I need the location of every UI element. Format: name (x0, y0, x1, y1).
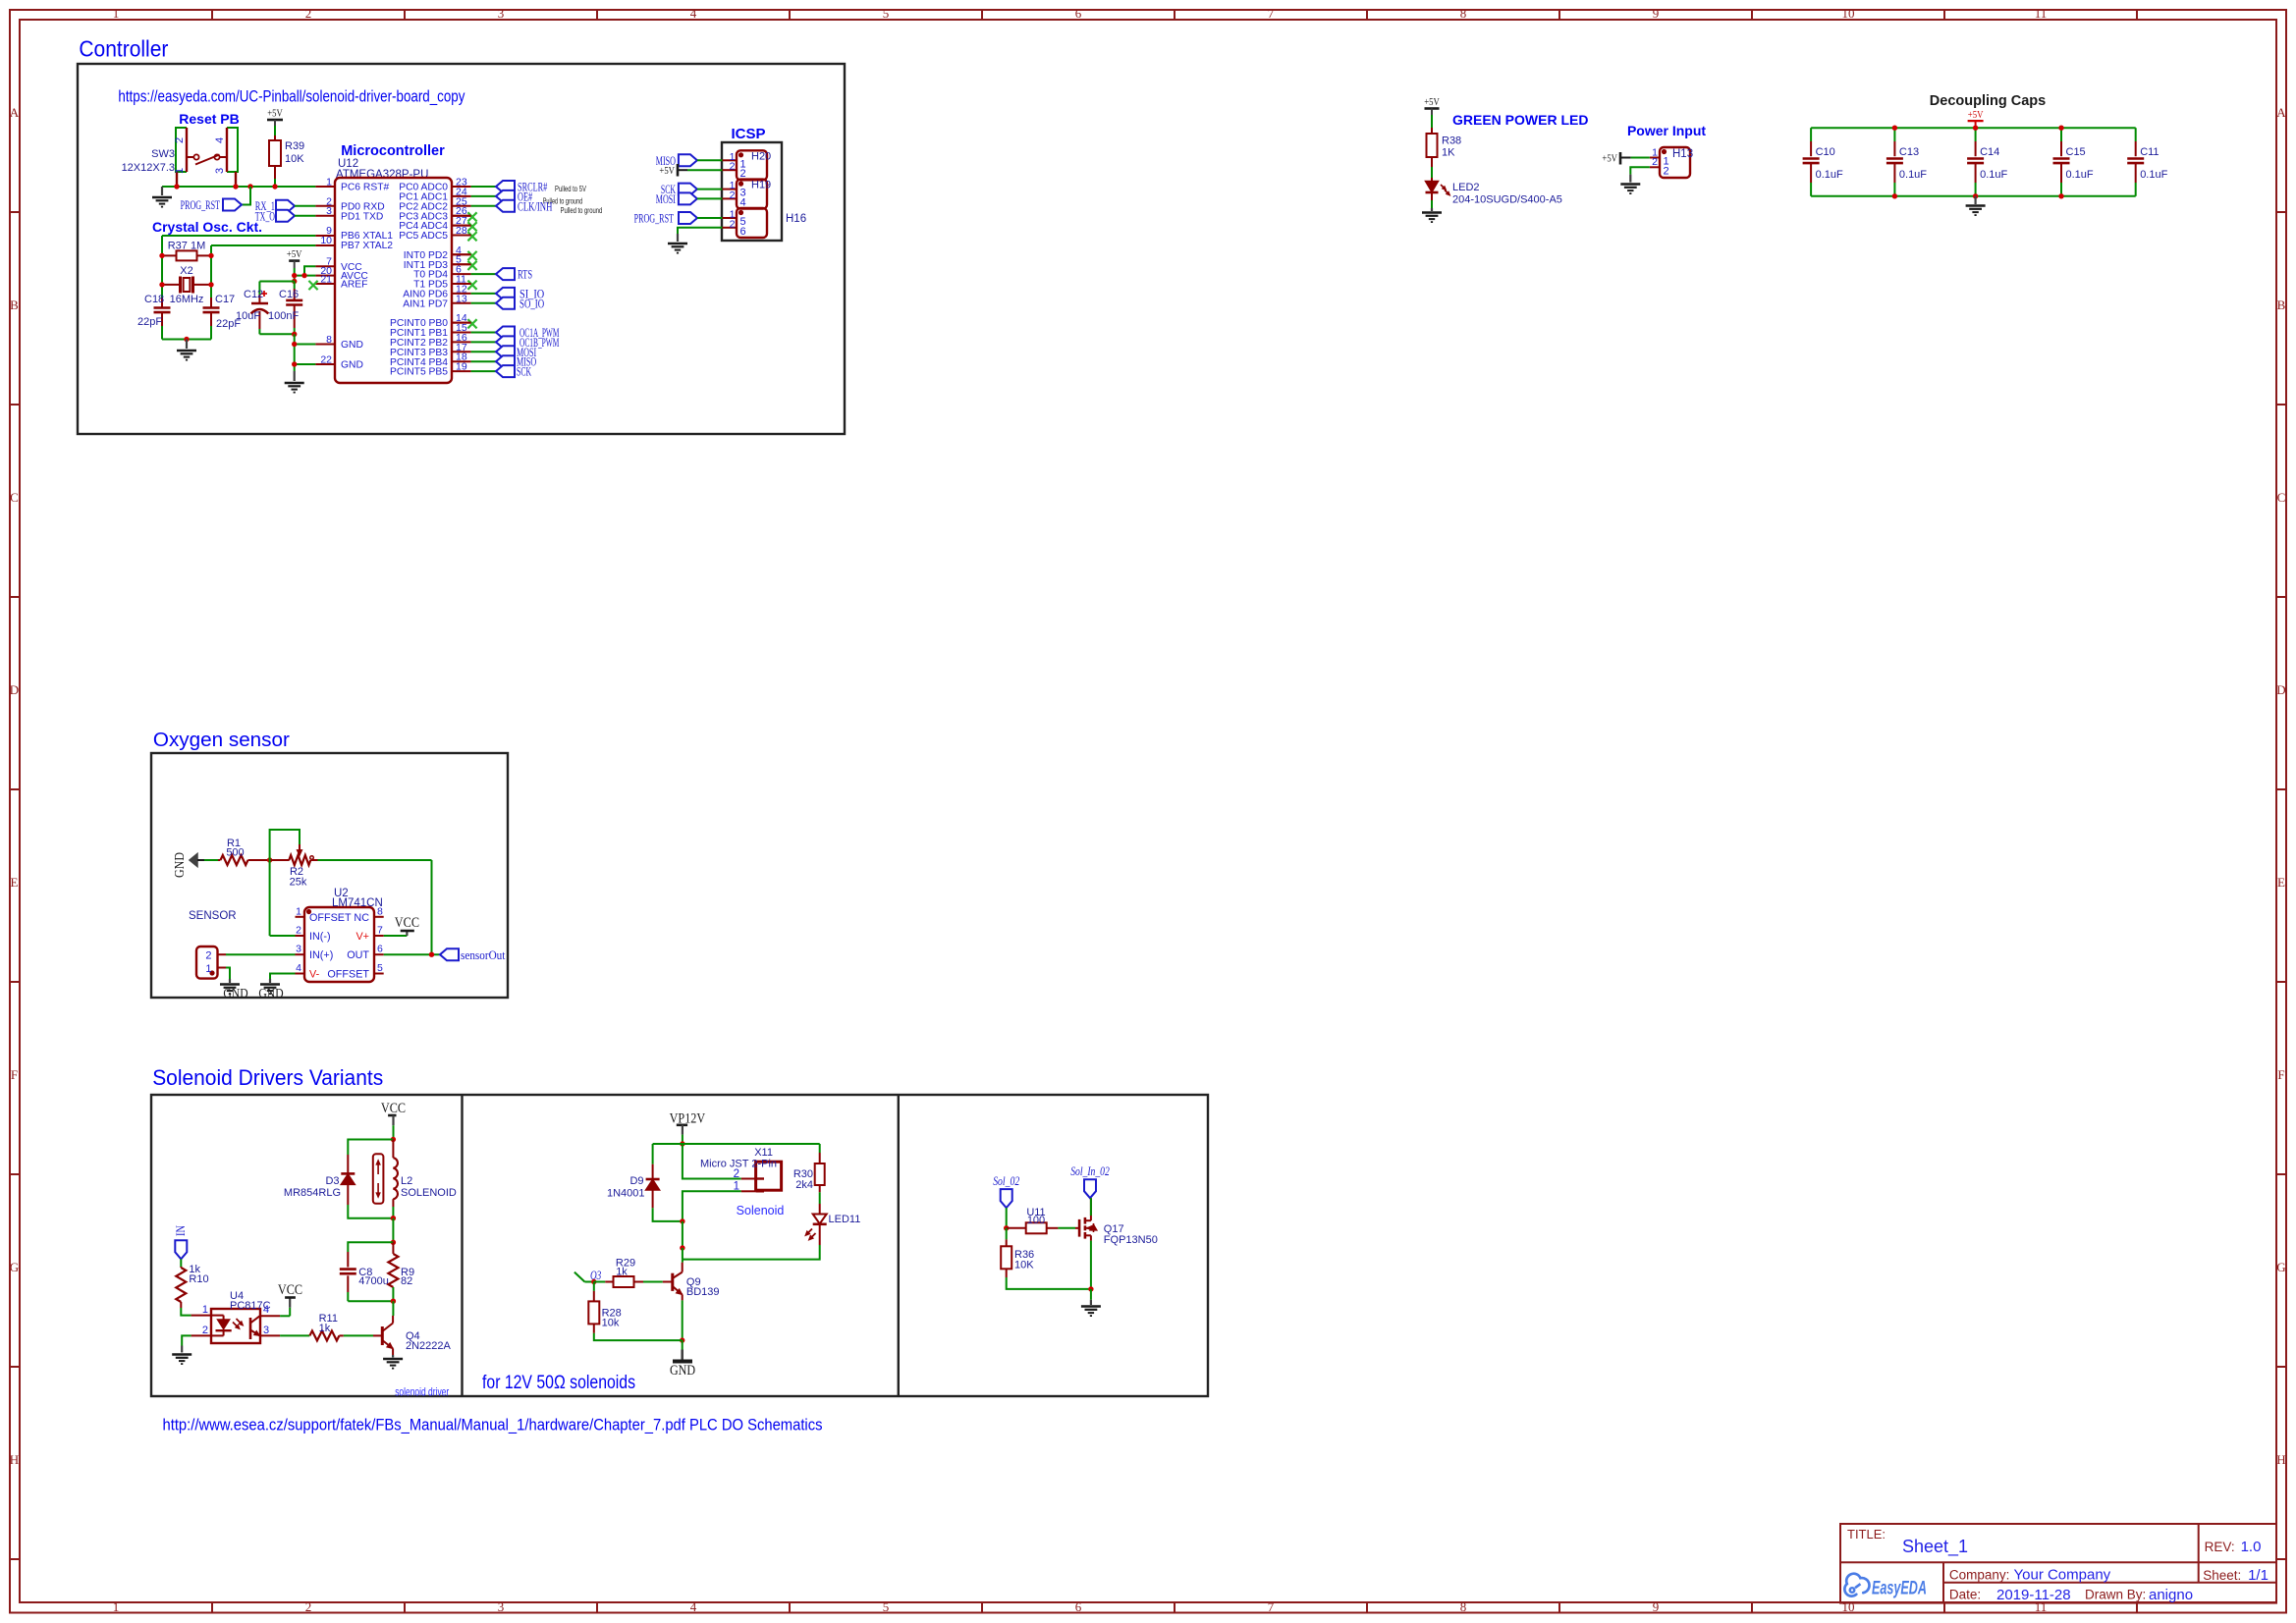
junction RST at PROG_RST tap (247, 184, 252, 189)
svg-text:Your Company: Your Company (2014, 1567, 2111, 1584)
netflag OC1A_PWM (496, 327, 515, 339)
svg-text:2: 2 (174, 137, 186, 143)
svg-text:PCINT5 PB5: PCINT5 PB5 (390, 367, 448, 378)
junction decoupling rail dots (1892, 126, 1897, 131)
wire SCK net (471, 370, 496, 372)
netflag RTS (496, 268, 515, 280)
pin 7 V+ of U2 (355, 925, 383, 944)
wire VCC stem panel1 (393, 1125, 395, 1139)
svg-text:C: C (2277, 490, 2286, 505)
svg-text:D9: D9 (629, 1175, 643, 1187)
svg-text:for 12V 50Ω solenoids: for 12V 50Ω solenoids (482, 1373, 635, 1393)
svg-text:X11: X11 (754, 1147, 773, 1159)
connector SENSOR P1 (196, 947, 218, 979)
svg-text:OUT: OUT (347, 949, 369, 961)
netflag SCK icsp (679, 184, 697, 195)
wire SCK to H19 (697, 189, 723, 190)
wire GND pin22 (295, 363, 316, 365)
svg-text:22: 22 (320, 354, 332, 366)
wire X11 pin1 link (683, 1191, 741, 1221)
netflag SI_IO (496, 288, 515, 299)
capacitor C8 (347, 1252, 349, 1268)
svg-text:V+: V+ (355, 931, 369, 943)
svg-text:OFFSET: OFFSET (327, 969, 369, 981)
inductor L2 SOLENOID (392, 1140, 394, 1159)
svg-text:1: 1 (174, 168, 186, 174)
svg-text:SCK: SCK (517, 365, 531, 379)
wire source down (1090, 1241, 1092, 1289)
pin 9 PB6 XTAL1 of U12 (326, 225, 393, 242)
svg-text:7: 7 (1268, 6, 1275, 21)
svg-text:2: 2 (1652, 156, 1658, 168)
wire X11 node to collector node (682, 1221, 683, 1248)
wire OE# net (471, 195, 496, 197)
plus mark C12 (261, 293, 267, 295)
svg-text:Micro JST 2-Pin: Micro JST 2-Pin (700, 1159, 777, 1170)
pin 19 PCINT5 PB5 of U12 (390, 361, 467, 378)
wire +5V stem (294, 268, 296, 282)
svg-text:LED11: LED11 (829, 1214, 861, 1225)
svg-text:8: 8 (1460, 6, 1467, 21)
pin 12 AIN0 PD6 of U12 (403, 283, 467, 299)
power +5V red netflag (1968, 120, 1984, 122)
wire D3 bottom link (348, 1205, 393, 1218)
svg-text:2: 2 (730, 218, 736, 230)
svg-text:3: 3 (263, 1325, 269, 1336)
svg-text:VCC: VCC (395, 915, 419, 931)
svg-text:BD139: BD139 (686, 1286, 720, 1298)
svg-text:C12: C12 (244, 289, 263, 300)
pin 6 T0 PD4 of U12 (413, 264, 462, 281)
svg-text:2: 2 (1664, 165, 1669, 177)
header H19 (723, 180, 772, 209)
netflag MISO pin18 (496, 355, 515, 367)
pin 27 PC4 ADC4 of U12 (399, 215, 467, 232)
wire RTS net (471, 273, 496, 275)
wire feedback top (318, 859, 432, 861)
pin 6 OUT of U2 (347, 944, 383, 962)
svg-text:2N2222A: 2N2222A (406, 1340, 452, 1352)
junction GND pin8 (292, 342, 297, 347)
svg-text:V-: V- (309, 969, 320, 981)
junction VCC branch (301, 273, 306, 278)
ground LED2 (1431, 208, 1433, 211)
wire D9 bottom link (653, 1208, 683, 1221)
junction GND pin22 (292, 361, 297, 366)
svg-text:3: 3 (214, 168, 226, 174)
svg-text:TITLE:: TITLE: (1847, 1527, 1886, 1542)
svg-text:10: 10 (1842, 1599, 1855, 1614)
wire collector Q9 (682, 1260, 683, 1263)
svg-text:SO_IO: SO_IO (519, 297, 544, 310)
svg-text:22pF: 22pF (137, 316, 162, 328)
svg-text:1: 1 (202, 1304, 208, 1316)
svg-text:Company:: Company: (1949, 1568, 2010, 1583)
wire R11 to Q4 base (344, 1334, 373, 1336)
svg-text:+5V: +5V (267, 108, 283, 120)
svg-text:GND: GND (258, 986, 283, 1001)
solenoid panel divider 2 (898, 1095, 900, 1396)
wire PROG_RST to H16 (697, 217, 723, 219)
wire Q9 emitter down (682, 1300, 683, 1340)
svg-text:+5V: +5V (1602, 153, 1617, 165)
svg-text:Sheet:: Sheet: (2203, 1568, 2241, 1583)
wire sensor pin1 to gnd (226, 968, 230, 980)
wire opto pin3 to R11 (280, 1334, 309, 1336)
svg-text:PB7 XTAL2: PB7 XTAL2 (341, 241, 393, 251)
svg-text:4700u: 4700u (358, 1275, 389, 1287)
netflag SRCLR# (496, 181, 515, 192)
wire H16 pin2 to ground (678, 228, 723, 234)
pin 7 VCC of U12 (326, 256, 362, 273)
capacitor C17 (210, 298, 212, 308)
svg-text:500: 500 (226, 847, 244, 859)
resistor R1 zigzag (218, 859, 220, 861)
svg-text:anigno: anigno (2149, 1587, 2193, 1603)
svg-text:0.1uF: 0.1uF (2140, 169, 2167, 181)
svg-text:C18: C18 (144, 294, 164, 305)
svg-text:1: 1 (734, 1181, 739, 1193)
wire decoupling top rail (1811, 127, 2136, 129)
svg-text:C17: C17 (215, 294, 235, 305)
svg-text:E: E (2277, 875, 2285, 890)
svg-text:PROG_RST: PROG_RST (181, 198, 221, 212)
svg-text:MOSI: MOSI (656, 192, 676, 206)
svg-text:8: 8 (326, 334, 332, 346)
wire C8 bottom link (348, 1300, 393, 1302)
wire V- to gnd (270, 974, 296, 980)
svg-text:H16: H16 (786, 213, 806, 225)
resistor R37 (162, 254, 177, 256)
netflag GND rotated for R1 (190, 854, 197, 867)
svg-text:IN: IN (174, 1225, 188, 1236)
svg-text:0.1uF: 0.1uF (1980, 169, 2007, 181)
junction +5V AVCC (292, 273, 297, 278)
svg-text:D3: D3 (325, 1175, 339, 1187)
title block divider logo cell (1942, 1562, 1944, 1602)
svg-text:1: 1 (205, 963, 211, 975)
pin 22 GND of U12 (320, 354, 363, 371)
svg-text:10k: 10k (602, 1318, 620, 1329)
wire SO_IO net (471, 302, 496, 304)
svg-text:Sheet_1: Sheet_1 (1902, 1537, 1968, 1557)
svg-text:4: 4 (296, 962, 301, 974)
svg-text:SOLENOID: SOLENOID (401, 1187, 457, 1199)
svg-text:+5V: +5V (287, 248, 302, 260)
solenoid drivers section box (151, 1095, 1208, 1396)
svg-text:H: H (10, 1452, 19, 1467)
svg-text:Solenoid Drivers Variants: Solenoid Drivers Variants (152, 1065, 383, 1090)
wire main rail panel2 (653, 1143, 820, 1145)
svg-text:Pulled to ground: Pulled to ground (561, 206, 603, 215)
ic U12 ATMEGA328P-PU body (335, 178, 452, 383)
ground opto (181, 1346, 183, 1353)
pin stub GND22 (315, 363, 335, 365)
pushbutton SW3 (176, 128, 238, 187)
svg-text:PD1 TXD: PD1 TXD (341, 211, 383, 222)
svg-text:+5V: +5V (659, 165, 675, 177)
netflag OC1B_PWM (496, 336, 515, 348)
junction RST at R39 (272, 184, 277, 189)
svg-text:VCC: VCC (381, 1101, 406, 1116)
power VCC opamp (406, 931, 408, 936)
svg-text:R10: R10 (189, 1273, 208, 1285)
netflag SO_IO (496, 298, 515, 309)
svg-text:0.1uF: 0.1uF (1899, 169, 1927, 181)
svg-text:7: 7 (1268, 1599, 1275, 1614)
EasyEDA logo (1844, 1574, 1927, 1599)
svg-text:4: 4 (263, 1304, 269, 1316)
svg-text:X2: X2 (180, 265, 192, 277)
pin stub GND8 (315, 344, 335, 346)
svg-text:F: F (11, 1067, 18, 1082)
svg-text:5: 5 (883, 6, 890, 21)
pin 17 PCINT3 PB3 of U12 (390, 342, 467, 358)
junction X11 node (680, 1218, 684, 1223)
capacitor C15 (2053, 128, 2094, 196)
power +5V above R38 (1425, 107, 1440, 110)
wire L2 to C8 node (392, 1218, 394, 1243)
svg-text:Drawn By:: Drawn By: (2085, 1588, 2146, 1602)
svg-text:Microcontroller: Microcontroller (341, 143, 445, 159)
svg-text:4: 4 (214, 137, 226, 143)
svg-text:Sol_02: Sol_02 (993, 1174, 1019, 1188)
svg-text:VP12V: VP12V (670, 1110, 706, 1126)
junction crystal gnd (184, 337, 189, 342)
wire feedback right column (431, 860, 433, 954)
header H20 (723, 150, 772, 180)
netflag sensorOut (440, 948, 459, 960)
svg-text:4: 4 (690, 6, 697, 21)
svg-text:H13: H13 (1672, 148, 1693, 160)
svg-text:2: 2 (202, 1325, 208, 1336)
pin 5 INT1 PD3 of U12 (404, 254, 462, 271)
svg-text:7: 7 (377, 925, 383, 937)
wire RST net horizontal (162, 186, 315, 188)
ground H13 (1629, 175, 1631, 183)
svg-text:H20: H20 (751, 150, 771, 162)
wire opto pin2 to gnd (182, 1335, 191, 1345)
svg-text:H: H (2276, 1452, 2285, 1467)
pin stub RST to U12 pin1 (315, 186, 335, 188)
wire R28 to emitter node (594, 1333, 683, 1340)
svg-text:2: 2 (730, 161, 736, 173)
junction Q3 node (591, 1279, 596, 1284)
resistor R36 (1006, 1239, 1008, 1246)
power +5V above AVCC (289, 259, 300, 262)
svg-text:C10: C10 (1816, 146, 1835, 158)
no-connect X on AREF (308, 281, 317, 290)
svg-text:MR854RLG: MR854RLG (284, 1187, 341, 1199)
svg-text:GND: GND (341, 360, 363, 371)
netflag Sol_02 (1001, 1189, 1012, 1208)
svg-text:16MHz: 16MHz (170, 294, 204, 305)
svg-text:+5V: +5V (1424, 96, 1440, 108)
svg-text:SENSOR: SENSOR (189, 910, 237, 922)
junction Sol_02 node (1004, 1225, 1009, 1230)
svg-text:25k: 25k (290, 877, 307, 889)
svg-text:R39: R39 (285, 140, 304, 152)
power +5V above R39 (267, 119, 283, 122)
pin stub VCC (315, 265, 335, 267)
wire collector to node (392, 1301, 394, 1316)
svg-text:B: B (10, 298, 19, 312)
svg-text:Date:: Date: (1949, 1588, 1981, 1602)
svg-text:RTS: RTS (518, 268, 532, 282)
svg-text:2: 2 (740, 168, 746, 180)
pin 8 NC of U2 (354, 905, 383, 924)
pin 4 V- of U2 (296, 962, 320, 981)
wire OUT to sensorOut (384, 953, 440, 955)
svg-text:11: 11 (2035, 6, 2048, 21)
diode D9 (652, 1164, 654, 1168)
wire crystal ground rail (161, 326, 163, 340)
svg-text:3: 3 (498, 6, 505, 21)
svg-text:https://easyeda.com/UC-Pinball: https://easyeda.com/UC-Pinball/solenoid-… (118, 87, 465, 106)
pin 2 PD0 RXD of U12 (326, 195, 384, 212)
wire R38 to LED2 (1431, 167, 1433, 178)
wire SI_IO net (471, 293, 496, 295)
svg-text:D: D (2276, 682, 2285, 697)
wire MISO to H20 (697, 159, 723, 161)
svg-text:R38: R38 (1442, 135, 1461, 147)
svg-text:AREF: AREF (341, 280, 367, 291)
svg-text:FQP13N50: FQP13N50 (1104, 1234, 1158, 1246)
header H13 (1650, 146, 1690, 178)
junction VCC node panel1 (391, 1137, 396, 1142)
svg-text:3: 3 (326, 205, 332, 217)
junction C12 branch (292, 279, 297, 284)
svg-text:R37 1M: R37 1M (168, 241, 206, 252)
svg-text:Reset PB: Reset PB (179, 111, 239, 127)
junction X2 right (208, 282, 213, 287)
svg-text:8: 8 (1460, 1599, 1467, 1614)
netflag TX_O (276, 210, 295, 222)
svg-text:10: 10 (320, 235, 332, 246)
pin 3 IN(+) of U2 (296, 944, 334, 962)
wire VCC pin7 (304, 266, 315, 275)
wire sensor pin2 to IN+ (226, 953, 296, 955)
svg-text:12X12X7.3: 12X12X7.3 (122, 162, 175, 174)
pin 1 PC6 RST# of U12 (326, 177, 389, 193)
pin1 marker U2 (306, 909, 311, 914)
svg-text:5: 5 (883, 1599, 890, 1614)
svg-text:CLK/INH: CLK/INH (518, 199, 553, 213)
svg-text:IN(-): IN(-) (309, 931, 331, 943)
pin 25 PC2 ADC2 of U12 (399, 195, 467, 212)
wire MISO net (471, 360, 496, 362)
ground below C16 (294, 371, 296, 381)
resistor U11 100 (1007, 1227, 1026, 1229)
svg-text:GND: GND (223, 986, 247, 1001)
junction RST at switch pin3 (233, 184, 238, 189)
wire source node to gnd (1090, 1289, 1092, 1300)
svg-text:C: C (10, 490, 19, 505)
controller section box (78, 64, 845, 434)
capacitor C14 (1967, 128, 2007, 196)
svg-text:1: 1 (296, 905, 301, 917)
svg-text:10: 10 (1842, 6, 1855, 21)
svg-text:AIN1 PD7: AIN1 PD7 (403, 298, 448, 309)
wire IN- column (269, 860, 271, 936)
wire R36 column (1006, 1228, 1008, 1240)
title block divider row2 right (1943, 1582, 2276, 1584)
svg-text:IN(+): IN(+) (309, 949, 333, 961)
wire Sol_In_02 to drain (1090, 1198, 1092, 1216)
svg-text:2: 2 (296, 925, 301, 937)
svg-text:9: 9 (1653, 6, 1660, 21)
svg-text:Power Input: Power Input (1627, 123, 1706, 138)
wire SRCLR# net (471, 186, 496, 188)
pin stubs right side U12 unconnected (452, 215, 471, 217)
wire PROG_RST tap (242, 187, 250, 205)
resistor R30 (819, 1144, 821, 1153)
svg-text:1k: 1k (616, 1267, 628, 1278)
pin stub RXD (315, 205, 335, 207)
wire GND flag to R1 (204, 859, 218, 861)
wire LED11 to collector node (683, 1245, 820, 1260)
netflag OE# (496, 190, 515, 202)
svg-text:LM741CN: LM741CN (332, 897, 383, 909)
svg-text:204-10SUGD/S400-A5: 204-10SUGD/S400-A5 (1452, 194, 1562, 206)
svg-text:GND: GND (670, 1363, 695, 1379)
svg-text:http://www.esea.cz/support/fat: http://www.esea.cz/support/fatek/FBs_Man… (163, 1416, 823, 1434)
svg-text:solenoid driver: solenoid driver (395, 1385, 449, 1399)
capacitor C10 (1803, 128, 1843, 196)
op-amp U2 LM741CN (304, 907, 374, 982)
svg-text:G: G (10, 1260, 19, 1274)
wire V+ to VCC (384, 935, 408, 937)
svg-text:6: 6 (1075, 1599, 1082, 1614)
wire XTAL2 net (211, 244, 315, 246)
svg-text:Sol_In_02: Sol_In_02 (1070, 1164, 1110, 1178)
frame row ticks left/right (10, 211, 20, 213)
pin 24 PC1 ADC1 of U12 (399, 186, 467, 202)
header H16 (723, 208, 768, 238)
wire Q3 to R28 (593, 1282, 595, 1291)
svg-text:PC6 RST#: PC6 RST# (341, 183, 389, 193)
pin 3 PD1 TXD of U12 (326, 205, 383, 222)
svg-text:100: 100 (1027, 1215, 1045, 1226)
pin 8 GND of U12 (326, 334, 363, 351)
junction C8 R9 top (391, 1240, 396, 1245)
ground V- (269, 979, 271, 983)
junction R1 R2 node (267, 857, 272, 862)
capacitor C11 (2127, 128, 2167, 196)
wire Sol_02 down (1006, 1208, 1008, 1228)
junction X2 left (159, 282, 164, 287)
svg-text:C15: C15 (2066, 146, 2086, 158)
ground decoupling (1974, 196, 1976, 204)
pin underline ticks for numbered stubs (452, 186, 471, 188)
ground Q17 (1090, 1300, 1092, 1305)
transistor Q9 BD139 (673, 1263, 683, 1301)
wire OC1A_PWM net (471, 332, 496, 334)
svg-text:10K: 10K (285, 153, 304, 165)
wire H13 pin2 to ground (1630, 167, 1650, 174)
svg-text:PROG_RST: PROG_RST (634, 212, 675, 226)
pin 14 PCINT0 PB0 of U12 (390, 312, 467, 329)
svg-text:H19: H19 (751, 180, 771, 191)
svg-text:5: 5 (377, 962, 383, 974)
plunger bar symbol (373, 1154, 384, 1204)
oxygen sensor section box (151, 753, 508, 998)
wire C8 top link (348, 1242, 393, 1252)
svg-text:Solenoid: Solenoid (737, 1204, 785, 1217)
netflag PROG_RST icsp (679, 212, 697, 224)
svg-text:LED2: LED2 (1452, 182, 1480, 193)
wire MOSI to H19 (697, 197, 723, 199)
